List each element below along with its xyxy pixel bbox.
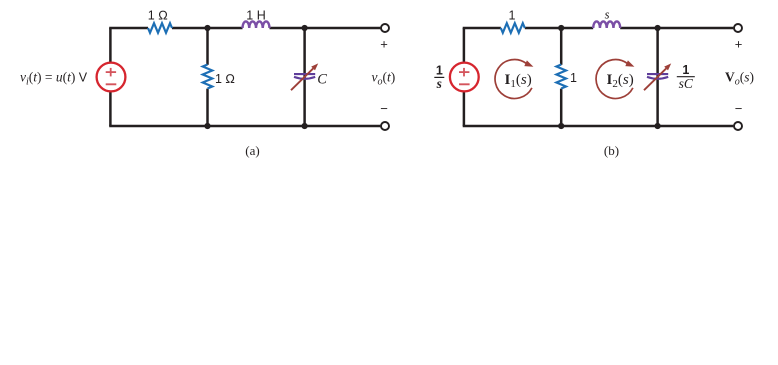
svg-text:s: s — [605, 8, 610, 22]
svg-text:+: + — [380, 37, 388, 52]
svg-text:+: + — [735, 37, 743, 52]
svg-text:I2(s): I2(s) — [607, 72, 634, 90]
svg-text:(b): (b) — [604, 143, 619, 158]
svg-text:s: s — [436, 76, 442, 91]
svg-text:1 Ω: 1 Ω — [215, 72, 235, 86]
svg-text:1 Ω: 1 Ω — [148, 9, 168, 23]
svg-text:C: C — [317, 72, 327, 88]
svg-text:I1(s): I1(s) — [505, 72, 532, 90]
svg-text:(a): (a) — [245, 143, 259, 158]
svg-text:sC: sC — [679, 76, 694, 91]
svg-text:1 H: 1 H — [246, 9, 265, 23]
svg-text:1: 1 — [570, 71, 577, 85]
svg-text:−: − — [380, 101, 388, 116]
svg-text:−: − — [735, 101, 743, 116]
svg-text:1: 1 — [509, 9, 516, 23]
